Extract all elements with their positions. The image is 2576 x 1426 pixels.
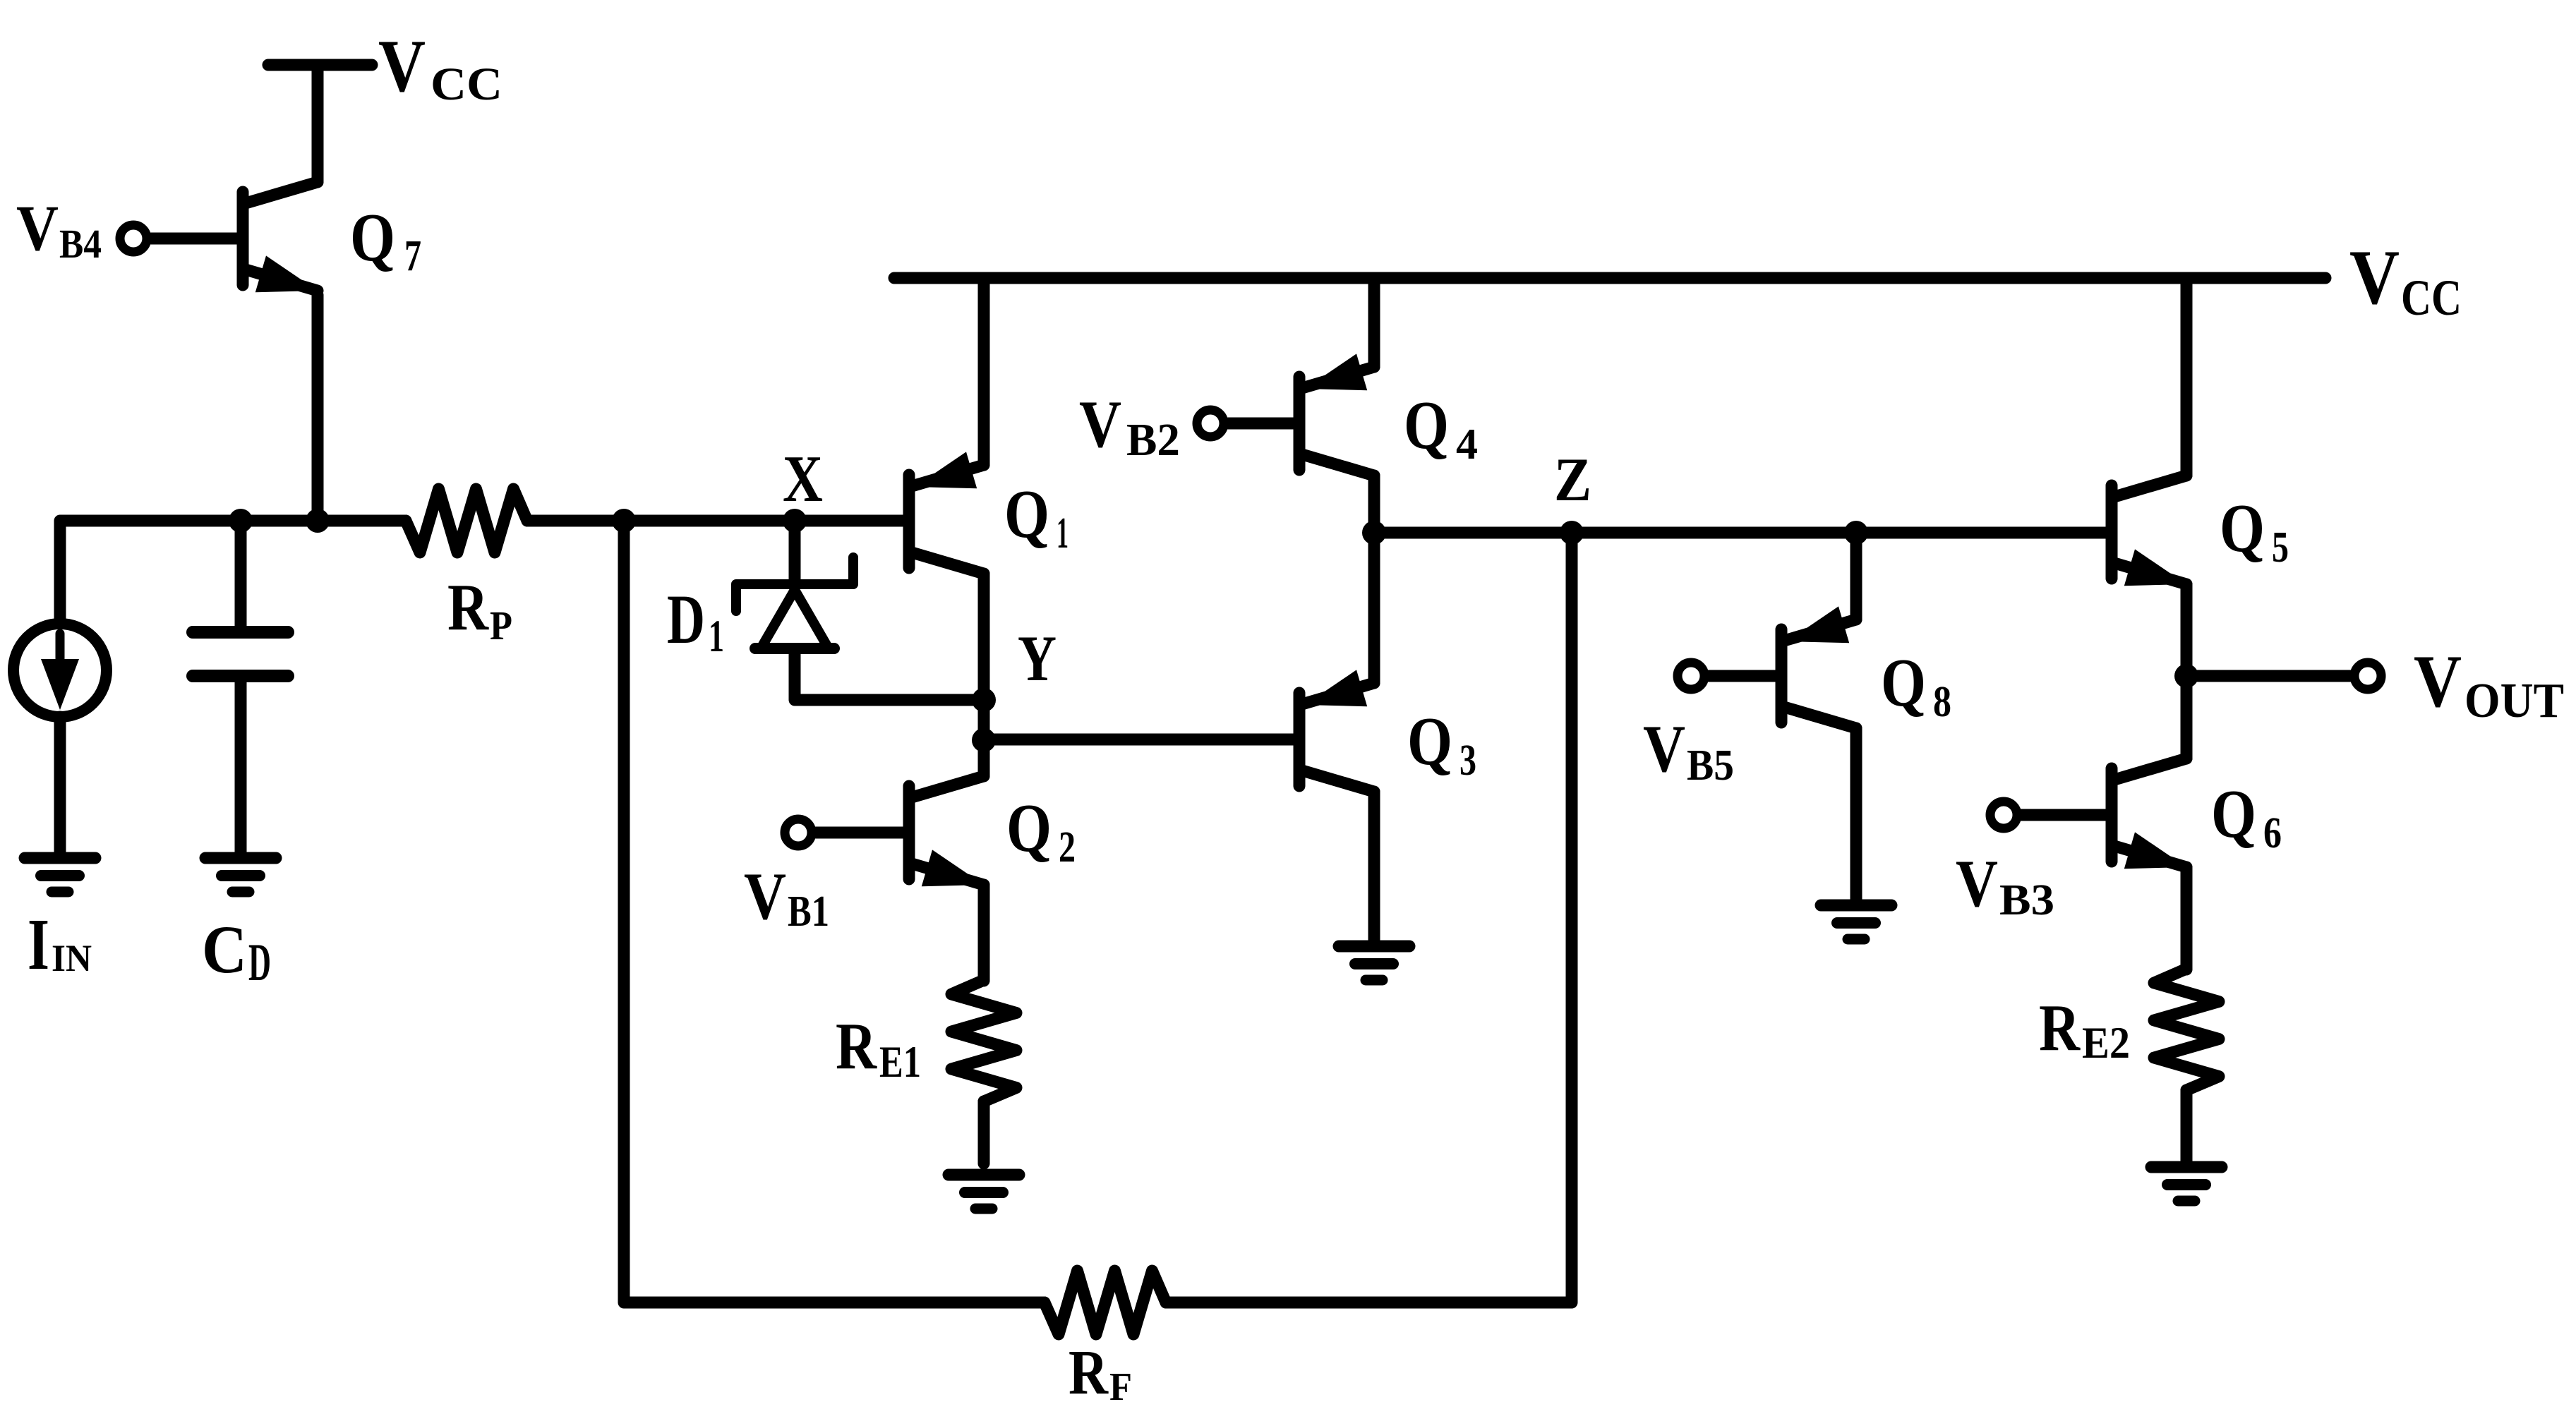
label Z (1554, 446, 1591, 514)
svg-text:6: 6 (2263, 809, 2282, 857)
svg-text:C: C (202, 912, 247, 987)
label Q8 (1881, 645, 1951, 726)
transistor Q3 (1299, 670, 1374, 792)
transistor Q1 (909, 452, 984, 574)
label R_F (1069, 1338, 1132, 1409)
wire VB4 to Q7 base (151, 233, 237, 245)
svg-text:B5: B5 (1687, 742, 1734, 790)
node Y (972, 688, 996, 712)
junction Q4-Q3 (1362, 521, 1386, 545)
wire feedback right (1166, 533, 1572, 1303)
svg-text:V: V (2349, 234, 2400, 320)
transistor Q8 (1781, 606, 1856, 728)
wire Q6 collector up (2181, 676, 2193, 759)
transistor Q7 (243, 182, 318, 292)
svg-text:8: 8 (1933, 678, 1951, 726)
svg-text:R: R (447, 571, 489, 644)
terminal VB2 (1197, 410, 1224, 437)
label Q6 (2211, 776, 2282, 857)
capacitor C_D (193, 632, 288, 676)
svg-text:I: I (28, 904, 49, 985)
svg-text:R: R (836, 1010, 877, 1083)
svg-text:B2: B2 (1126, 414, 1180, 466)
svg-text:E2: E2 (2082, 1017, 2130, 1068)
wire Q4 collector down (1368, 476, 1380, 533)
svg-text:Q: Q (1004, 476, 1049, 552)
svg-text:1: 1 (709, 611, 724, 662)
wire Q8 collector down (1850, 728, 1862, 900)
ground Q3 (1339, 946, 1409, 980)
wire Q1 emitter to VCC rail (978, 278, 990, 465)
wire R_P to X (527, 515, 903, 527)
svg-text:P: P (490, 603, 512, 648)
label VB5 (1643, 711, 1734, 790)
terminal VOUT (2354, 663, 2381, 689)
svg-text:3: 3 (1459, 737, 1476, 785)
wire Q3 emitter up (1368, 533, 1380, 683)
label Q2 (1006, 790, 1076, 871)
wire Q2 collector up (978, 740, 990, 776)
resistor R_E2 (2154, 969, 2219, 1090)
transistor Q4 (1299, 354, 1374, 476)
svg-text:D: D (667, 580, 705, 658)
node Z (1560, 521, 1584, 545)
wire Q1 collector to Y (978, 574, 990, 700)
transistor Q5 (2112, 476, 2186, 586)
wire C_D bottom (235, 682, 247, 852)
svg-text:V: V (378, 25, 426, 107)
svg-text:CC: CC (2401, 270, 2462, 326)
wire Q5 emitter to VOUT node (2181, 584, 2193, 676)
svg-text:1: 1 (1057, 509, 1069, 557)
svg-text:IN: IN (52, 937, 92, 979)
resistor R_P (406, 489, 527, 552)
wire VB2 to Q4 base (1228, 418, 1294, 430)
ground R_E1 (949, 1175, 1019, 1209)
svg-text:V: V (1956, 846, 1998, 921)
resistor R_F (1045, 1271, 1166, 1334)
label R_E1 (836, 1010, 921, 1087)
wire VOUT (2186, 670, 2350, 682)
ground C_D (205, 858, 276, 892)
label Q1 (1004, 476, 1069, 557)
label C_D (202, 912, 271, 992)
svg-text:E1: E1 (879, 1037, 921, 1087)
svg-text:4: 4 (1456, 421, 1478, 469)
svg-text:CC: CC (431, 59, 502, 110)
svg-text:V: V (2414, 640, 2462, 723)
transistor Q2 (909, 776, 984, 886)
svg-text:B4: B4 (59, 221, 102, 267)
svg-text:Z: Z (1554, 446, 1591, 514)
svg-text:OUT: OUT (2464, 674, 2564, 728)
label VB1 (744, 859, 829, 936)
svg-text:V: V (1079, 387, 1121, 461)
wire Y segment (978, 700, 990, 740)
current source I_IN (13, 624, 107, 717)
wire X to D1 (789, 521, 801, 584)
power VCC rail (894, 272, 2325, 284)
svg-text:Q: Q (1407, 703, 1452, 780)
wire Q5 collector to VCC rail (2181, 278, 2193, 476)
svg-text:Y: Y (1018, 622, 1057, 694)
label D1 (667, 580, 724, 662)
svg-text:Q: Q (1404, 387, 1449, 464)
junction Q7 emitter tap (306, 509, 330, 533)
ground R_E2 (2151, 1167, 2222, 1201)
wire I_IN to ground (54, 717, 66, 852)
label Q7 (350, 200, 421, 280)
junction C_D tap (229, 509, 253, 533)
label Y (1018, 622, 1057, 694)
label VB4 (16, 192, 102, 267)
label VB3 (1956, 846, 2054, 924)
svg-text:X: X (783, 442, 823, 516)
wire Q2 emitter to R_E1 (978, 885, 990, 981)
label VCC (top left) (378, 25, 502, 110)
label Q5 (2220, 490, 2289, 572)
wire VB1 to Q2 base (816, 827, 903, 839)
wire VB5 to Q8 base (1709, 670, 1776, 682)
terminal VB4 (120, 225, 147, 252)
label R_P (447, 571, 512, 648)
svg-text:R: R (1069, 1338, 1109, 1408)
wire main input node (left segment) (60, 521, 406, 624)
wire Q7 emitter down (312, 295, 324, 521)
svg-text:Q: Q (2220, 490, 2265, 567)
svg-text:Q: Q (1006, 790, 1052, 866)
svg-text:V: V (16, 192, 59, 264)
wire Q7 collector to VCC (312, 65, 324, 182)
resistor R_E1 (951, 980, 1016, 1101)
node X (783, 509, 807, 533)
wire D1 anode to Y (795, 653, 984, 700)
svg-text:5: 5 (2272, 524, 2289, 572)
svg-text:2: 2 (1059, 823, 1076, 871)
label Q4 (1404, 387, 1478, 469)
label Q3 (1407, 703, 1476, 785)
terminal VB1 (785, 819, 812, 846)
svg-text:D: D (248, 933, 271, 992)
svg-text:Q: Q (350, 200, 395, 276)
wire Q3 collector to ground (1368, 792, 1380, 941)
power VCC bar (top left) (268, 59, 372, 71)
wire Q6 emitter to R_E2 (2181, 867, 2193, 969)
wire Q4 emitter to VCC rail (1368, 278, 1380, 367)
svg-text:V: V (744, 859, 786, 933)
terminal VB5 (1678, 663, 1704, 689)
svg-text:Q: Q (2211, 776, 2256, 852)
wire Y to Q3 base (984, 734, 1294, 746)
label R_E2 (2039, 991, 2130, 1068)
label VB2 (1079, 387, 1180, 466)
junction R_F tap (612, 509, 636, 533)
svg-text:Q: Q (1881, 645, 1926, 721)
wire C_D top (235, 521, 247, 627)
label VOUT (2414, 640, 2564, 728)
wire Q8 emitter up (1850, 533, 1862, 620)
svg-text:B1: B1 (788, 888, 829, 936)
label X (783, 442, 823, 516)
diode D1 (zener) (736, 557, 853, 648)
junction Q8 tap (1844, 521, 1868, 545)
transistor Q6 (2112, 759, 2186, 869)
wire feedback left (624, 521, 1045, 1303)
ground I_IN (25, 858, 95, 892)
svg-text:B3: B3 (1999, 876, 2054, 924)
wire VB3 to Q6 base (2021, 809, 2106, 821)
label VCC (top right) (2349, 234, 2462, 326)
ground Q8 (1821, 905, 1891, 939)
terminal VB3 (1990, 802, 2017, 828)
svg-text:V: V (1643, 711, 1685, 786)
junction Y2 (972, 728, 996, 752)
svg-text:7: 7 (404, 232, 421, 280)
svg-text:R: R (2039, 991, 2081, 1065)
node VOUT junction (2174, 664, 2198, 688)
label I_IN (28, 904, 92, 985)
wire R_E1 to ground (978, 1101, 990, 1164)
wire Z rail (1374, 527, 2106, 539)
wire R_E2 to ground (2181, 1090, 2193, 1161)
svg-text:F: F (1109, 1365, 1132, 1409)
